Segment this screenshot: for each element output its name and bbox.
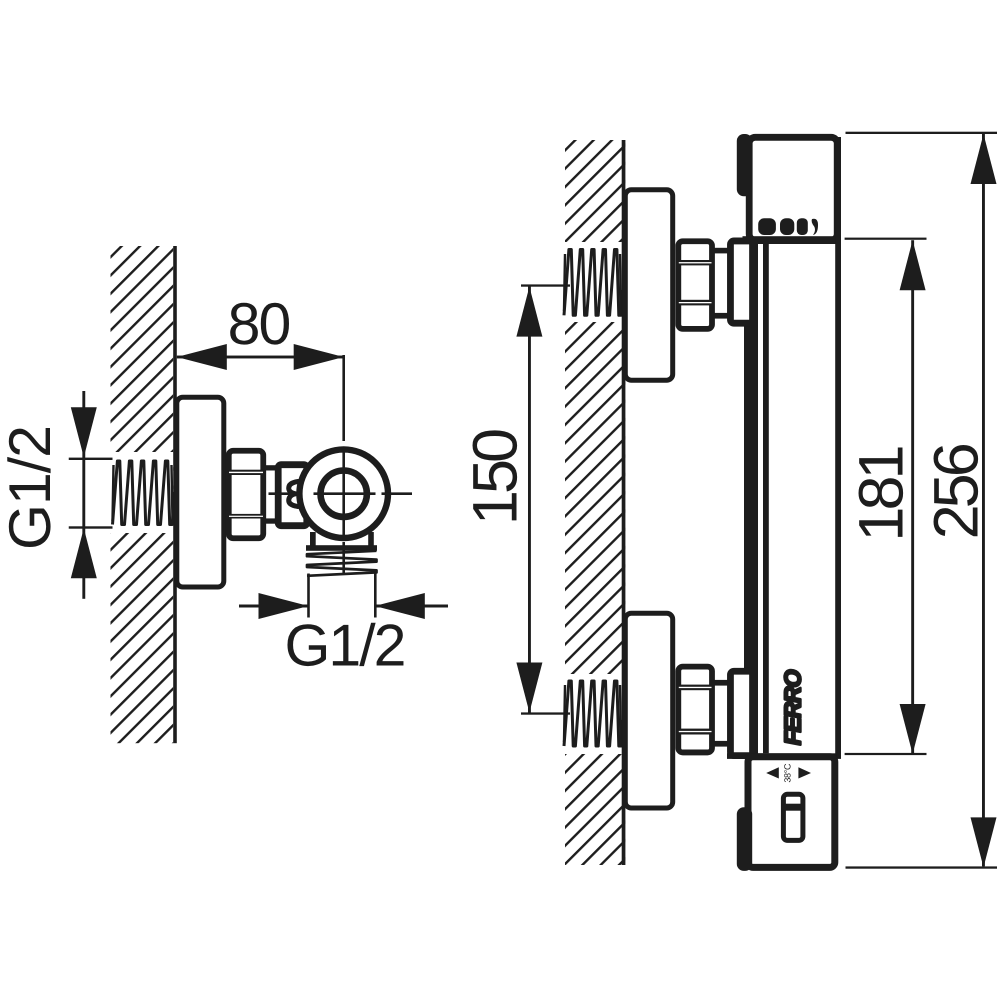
outlet pipe end lines (307, 574, 310, 618)
adapters right (713, 248, 730, 254)
escutcheons right (625, 190, 672, 380)
wall face line right (622, 140, 626, 865)
adapter pipe (left figure) (263, 465, 277, 470)
svg-text:G1/2: G1/2 (285, 613, 405, 679)
dimension 181 (845, 238, 927, 756)
outlet neck (310, 532, 316, 547)
dimension G1/2 bottom (239, 593, 448, 679)
centerline vertical (342, 355, 345, 575)
lower wall thread (564, 681, 623, 746)
dimension 150 (460, 284, 570, 714)
svg-text:FERRO: FERRO (780, 669, 806, 745)
tab with notch (289, 482, 298, 507)
svg-text:G1/2: G1/2 (0, 426, 63, 550)
valve body circle (299, 449, 388, 538)
38C arrows (766, 767, 779, 778)
svg-text:80: 80 (228, 291, 290, 357)
svg-text:181: 181 (847, 447, 917, 541)
wall pipe thread G1/2 (113, 461, 175, 525)
logo blobs on cap (758, 218, 776, 235)
svg-text:256: 256 (921, 444, 991, 539)
nut (left figure) (229, 451, 264, 539)
nuts right (678, 241, 712, 329)
separator line (743, 236, 841, 244)
svg-text:150: 150 (460, 430, 530, 525)
bar left thick stripe (744, 244, 758, 759)
bar inner line (763, 244, 769, 753)
wall hatching left (111, 246, 174, 743)
dimension 80 (177, 291, 344, 370)
FERRO logo on bar (780, 669, 806, 745)
lever (783, 794, 803, 840)
bar: top cap (749, 137, 837, 240)
escutcheon (left figure) (177, 397, 224, 587)
dimension 256 (846, 132, 998, 869)
upper wall thread (564, 250, 623, 316)
white box behind wall thread (104, 452, 173, 533)
valve block (left figure) (278, 465, 307, 526)
knob box (748, 757, 835, 868)
inlet blocks (730, 241, 752, 323)
bar bottom line (727, 753, 836, 759)
wall face line (173, 246, 177, 743)
dimension G1/2 vertical (left) (0, 391, 113, 599)
svg-text:38°C: 38°C (783, 763, 793, 783)
knob left flange (737, 807, 752, 871)
white boxes behind threads (556, 242, 623, 322)
bar right edge (835, 137, 841, 759)
centerline horizontal (269, 492, 413, 495)
top cap left flange (737, 134, 752, 196)
outlet thread (307, 551, 377, 576)
wall hatching right (565, 140, 625, 865)
